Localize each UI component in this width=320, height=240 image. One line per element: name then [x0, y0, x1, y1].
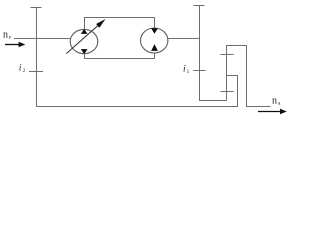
- motor bottom triangle: [151, 44, 158, 51]
- svg-text:n: n: [3, 30, 8, 41]
- svg-text:i: i: [19, 64, 22, 74]
- shaft II (x=199.5) with corner to step: [200, 6, 227, 101]
- gear tick on shaft III lower: [221, 91, 234, 93]
- wire input line: [14, 38, 70, 40]
- svg-text:2: 2: [23, 68, 26, 74]
- shaft III bracket and output shaft IV: [227, 46, 271, 107]
- gear tick i2 on shaft I: [29, 71, 43, 73]
- input shaft I (left vertical) with bottom wire to step: [37, 8, 238, 107]
- gear tick on shaft III upper: [221, 54, 234, 56]
- svg-text:1: 1: [187, 69, 190, 75]
- output arrow: [258, 111, 281, 113]
- svg-text:n: n: [272, 95, 277, 106]
- hydraulic loop top line: [85, 18, 155, 30]
- input arrow: [5, 44, 20, 46]
- hydraulic loop bottom line: [85, 53, 155, 59]
- variable displacement arrow through pump: [66, 23, 100, 53]
- gear tick i1 on shaft II: [194, 70, 206, 72]
- bearing tick top of shaft I: [31, 7, 42, 9]
- bearing tick top of shaft II: [194, 5, 205, 7]
- pump bottom triangle: [81, 49, 88, 54]
- wire motor output line: [168, 38, 200, 40]
- pump U1 circle (variable displacement): [70, 29, 98, 53]
- pump top triangle: [81, 29, 88, 34]
- motor U2 circle: [141, 28, 168, 53]
- svg-text:i: i: [183, 65, 186, 75]
- motor top triangle: [151, 28, 158, 34]
